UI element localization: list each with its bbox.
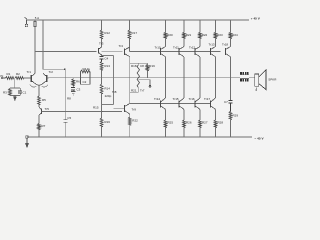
output column 3 [199, 20, 201, 32]
svg-text:− 45 V: − 45 V [255, 137, 265, 141]
output column 2 [183, 20, 185, 32]
resistor R21 [183, 32, 186, 38]
transistor Tr18 [225, 47, 230, 57]
transistor Tr16 [195, 98, 200, 109]
input terminal [1, 77, 5, 79]
wire bootstrap column [64, 69, 66, 120]
svg-text:R24: R24 [232, 33, 238, 37]
svg-text:Tr7: Tr7 [140, 89, 145, 93]
svg-text:Tr13: Tr13 [209, 42, 215, 46]
svg-text:R29: R29 [233, 113, 239, 117]
resistor R7 [38, 124, 41, 130]
transistor Tr11 [179, 47, 184, 57]
resistor R23 [214, 32, 217, 38]
svg-text:R7: R7 [42, 124, 46, 128]
wire A to Tr3 base [35, 51, 97, 53]
transistor Tr15 [179, 98, 184, 109]
resistor R6 [72, 78, 74, 79]
svg-text:5 A: 5 A [35, 16, 39, 20]
svg-text:+ 45 V: + 45 V [251, 17, 261, 21]
node junction [64, 69, 66, 71]
wire Tr3 to Tr4 base [102, 51, 123, 53]
svg-text:SPKR: SPKR [268, 78, 277, 82]
svg-text:R15: R15 [93, 105, 99, 109]
svg-text:R21: R21 [131, 89, 137, 93]
resistor R3 [9, 89, 12, 96]
resistor R14 [100, 84, 103, 94]
speaker LS1 [255, 70, 266, 90]
ground input [14, 96, 17, 101]
resistor R2 [15, 77, 24, 80]
svg-text:R14: R14 [104, 86, 110, 90]
transistor Tr3 [98, 47, 101, 55]
wire feedback to output node [47, 77, 49, 79]
svg-text:R12: R12 [104, 31, 110, 35]
svg-text:R28: R28 [218, 120, 224, 124]
wire bias bus lower [42, 111, 123, 113]
svg-text:Tr16: Tr16 [189, 97, 195, 101]
transistor Tr4 [124, 47, 130, 56]
resistor R24 [229, 32, 232, 38]
wire V2 rail down [42, 20, 44, 69]
top supply rail +45V [26, 19, 249, 21]
svg-text:R18: R18 [131, 64, 137, 68]
resistor R4 feedback [80, 72, 82, 78]
svg-text:R17: R17 [132, 31, 138, 35]
resistor R5 [38, 96, 41, 105]
transistor Tr10 [160, 47, 165, 57]
svg-text:R20: R20 [167, 33, 173, 37]
svg-text:Tr17: Tr17 [204, 97, 210, 101]
output column 5 [230, 20, 232, 32]
wire B to bootstrap column [43, 68, 65, 70]
wire to Tr1 base [24, 77, 32, 79]
svg-text:Tr3: Tr3 [99, 42, 104, 46]
wire cluster bottom [130, 91, 139, 93]
inductor L1 [241, 72, 248, 81]
capacitor C3 [72, 86, 74, 88]
svg-text:R3: R3 [3, 91, 7, 95]
svg-text:R16: R16 [104, 120, 110, 124]
wire cluster top [130, 62, 148, 64]
svg-text:R25: R25 [168, 120, 174, 124]
svg-text:R8: R8 [67, 97, 71, 101]
resistor R22 [199, 32, 202, 38]
zobel branch [230, 78, 232, 101]
svg-text:C5: C5 [67, 116, 71, 120]
resistor R27 [199, 120, 202, 127]
svg-text:Tr8: Tr8 [112, 90, 117, 94]
svg-text:R1: R1 [7, 72, 11, 76]
svg-text:R2: R2 [16, 72, 20, 76]
svg-text:C2: C2 [83, 80, 87, 84]
resistor R1 [6, 77, 15, 80]
svg-text:Tr10: Tr10 [155, 45, 161, 49]
ground feedback [71, 92, 76, 95]
resistor R28 [214, 120, 217, 127]
capacitor C2 box [81, 78, 91, 85]
wire shunt drop [13, 78, 15, 88]
svg-text:Tr11: Tr11 [173, 45, 179, 49]
resistor R29 [229, 111, 232, 119]
resistor R17 [129, 20, 131, 30]
resistor R12 [101, 20, 103, 30]
svg-text:Tr15: Tr15 [173, 97, 179, 101]
wire Tr9 base [114, 107, 125, 109]
terminal 0V bottom [26, 136, 29, 148]
preset wiper RV1 [138, 80, 150, 86]
output column 1 [165, 20, 167, 32]
transistor Tr12 [195, 47, 200, 57]
svg-text:C4: C4 [104, 56, 108, 60]
svg-text:Tr4: Tr4 [119, 44, 124, 48]
capacitor C7 [229, 101, 233, 104]
node dot [101, 111, 103, 113]
svg-text:Tr12: Tr12 [189, 45, 195, 49]
resistor R13 [100, 62, 103, 71]
capacitor C1 [19, 88, 21, 91]
transistor Tr17 [210, 98, 215, 109]
resistor R22 [128, 117, 131, 125]
wire upper base bus [130, 51, 221, 53]
svg-text:R19: R19 [149, 64, 155, 68]
svg-text:C7: C7 [224, 100, 228, 104]
fuse FS1 5A [34, 22, 36, 27]
svg-text:Tr9: Tr9 [132, 107, 137, 111]
svg-text:R22: R22 [202, 33, 208, 37]
capacitor C5 [63, 120, 67, 123]
svg-text:R21: R21 [186, 33, 192, 37]
svg-text:C3: C3 [77, 87, 81, 91]
svg-text:Tr18: Tr18 [222, 43, 228, 47]
resistor R16 [100, 118, 103, 127]
transistor Tr5 [39, 108, 42, 116]
transistor Tr13 [210, 47, 215, 57]
output column 4 [215, 20, 217, 32]
wire bias cluster mid column / preset track [137, 63, 139, 65]
wire V1 rail to Tr1 collector [34, 20, 36, 74]
resistor R19 cluster right [147, 63, 149, 64]
capacitor C4 [100, 57, 104, 60]
svg-text:1k: 1k [87, 67, 91, 71]
wire bias cluster left column [129, 57, 131, 104]
wire lower base bus [130, 102, 211, 104]
svg-text:220p: 220p [105, 94, 112, 98]
svg-text:R23: R23 [217, 33, 223, 37]
resistor R20 [164, 32, 167, 38]
svg-text:R13: R13 [104, 64, 110, 68]
transistor Tr2 [39, 74, 47, 86]
terminal +45V input [25, 17, 28, 27]
svg-text:IN: IN [0, 74, 3, 78]
svg-text:Tr5: Tr5 [45, 107, 50, 111]
svg-text:C1: C1 [23, 91, 27, 95]
transistor Tr9 [124, 104, 130, 115]
box compensation network [102, 54, 114, 56]
wire tail [38, 85, 40, 96]
transistor Tr14 [160, 98, 165, 109]
svg-text:R5: R5 [42, 98, 46, 102]
svg-text:R6: R6 [76, 79, 80, 83]
svg-text:C8: C8 [140, 64, 144, 68]
svg-text:Tr2: Tr2 [49, 70, 54, 74]
svg-text:Tr14: Tr14 [154, 97, 160, 101]
transistor Tr1 [31, 74, 39, 86]
svg-text:R22: R22 [132, 118, 138, 122]
svg-text:Tr1: Tr1 [27, 70, 32, 74]
svg-text:R27: R27 [202, 120, 208, 124]
svg-text:R26: R26 [186, 120, 192, 124]
resistor R26 [183, 120, 186, 127]
resistor R25 [164, 120, 167, 127]
bottom supply rail -45V [27, 136, 252, 138]
